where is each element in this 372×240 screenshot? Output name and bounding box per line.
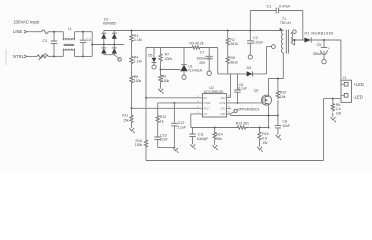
ground under R6: [331, 117, 336, 122]
svg-text:1.1M: 1.1M: [134, 60, 142, 64]
svg-text:GND: GND: [220, 113, 226, 116]
ground circle C7: [207, 71, 211, 75]
ground circle U1: [182, 75, 186, 79]
wire pin5 GND: [230, 114, 278, 116]
svg-text:C8: C8: [282, 119, 286, 123]
wire bridge left column: [103, 31, 105, 55]
wire pin3 MULT: [132, 107, 197, 109]
wire pin1 VSENSE: [146, 97, 197, 99]
ground under R14: [212, 145, 217, 150]
T1 secondary dot circle: [293, 30, 297, 34]
svg-text:C3: C3: [43, 39, 47, 43]
wire: [27, 31, 42, 33]
svg-text:1000pF: 1000pF: [197, 137, 209, 141]
svg-text:15k: 15k: [216, 137, 222, 141]
svg-text:C1: C1: [267, 5, 272, 9]
diode D2c: [112, 32, 117, 34]
ground under C11: [190, 144, 195, 149]
svg-text:L1: L1: [68, 27, 72, 31]
svg-text:TLV431A: TLV431A: [188, 69, 203, 73]
wire bridge right column: [113, 31, 115, 55]
svg-text:1W: 1W: [336, 111, 342, 115]
wire VDD riser to pin8: [227, 74, 231, 98]
svg-text:200k: 200k: [165, 57, 173, 61]
ground under R15: [257, 147, 262, 152]
wire AC feed vertical: [92, 32, 124, 57]
svg-text:R7: R7: [165, 52, 169, 56]
wire ZCD column: [145, 48, 147, 98]
svg-text:2.2uF: 2.2uF: [177, 126, 186, 130]
svg-text:SPP04N60C3: SPP04N60C3: [237, 108, 259, 112]
scan artifact left edge: [5, 49, 7, 65]
svg-text:D5: D5: [148, 54, 152, 58]
T1 primary dot: [280, 28, 282, 30]
svg-text:100k: 100k: [134, 79, 142, 83]
node junction: [53, 31, 55, 33]
T1 core: [286, 30, 288, 54]
svg-text:381k: 381k: [230, 42, 238, 46]
svg-text:-LED: -LED: [353, 95, 363, 100]
svg-text:C11: C11: [198, 132, 204, 136]
ground circle C5: [322, 59, 326, 63]
svg-text:J1: J1: [343, 76, 347, 80]
svg-text:10uF: 10uF: [282, 124, 290, 128]
svg-text:20V: 20V: [199, 61, 206, 65]
ground under C8: [276, 135, 281, 140]
svg-text:C5: C5: [317, 43, 321, 47]
node junctions: [103, 44, 105, 46]
wire to J1: [341, 40, 344, 84]
ground bridge: [118, 58, 122, 62]
svg-text:D1 MURB1660: D1 MURB1660: [305, 32, 334, 36]
svg-text:C7: C7: [200, 50, 204, 54]
fuse F1: [42, 30, 48, 33]
svg-text:EN: EN: [204, 97, 208, 100]
svg-text:MULT: MULT: [204, 108, 211, 111]
ground under R9: [158, 89, 163, 94]
svg-text:D3: D3: [247, 66, 251, 70]
wire pin4 CS: [191, 114, 269, 128]
svg-text:1k: 1k: [160, 120, 164, 124]
svg-text:100k: 100k: [162, 79, 170, 83]
ground at pin5: [234, 109, 237, 112]
svg-text:15k: 15k: [123, 119, 129, 123]
svg-text:R3 40.2k: R3 40.2k: [190, 42, 204, 46]
svg-text:230VAC Input: 230VAC Input: [14, 19, 41, 24]
ground circle C2: [248, 55, 252, 59]
U2 pin stubs right: [227, 103, 232, 114]
wire Q1 source down: [268, 105, 270, 127]
wire secondary bottom: [291, 40, 295, 45]
wire: [131, 43, 133, 56]
svg-text:R10: R10: [280, 91, 286, 95]
wire pin7 GATE: [231, 102, 263, 104]
svg-text:COMP: COMP: [204, 102, 212, 105]
svg-text:0.47uF: 0.47uF: [279, 5, 291, 9]
aux winding tap circle: [272, 45, 276, 49]
svg-text:Q1: Q1: [254, 88, 259, 92]
svg-text:CS: CS: [204, 113, 208, 116]
ground circle D5: [152, 65, 156, 69]
U2 pin stubs left: [197, 98, 203, 114]
wire: [48, 31, 63, 33]
svg-text:1W: 1W: [262, 141, 268, 145]
svg-text:LINE: LINE: [13, 29, 23, 34]
svg-text:100k: 100k: [135, 143, 143, 147]
svg-text:381k: 381k: [230, 60, 238, 64]
wire: [131, 84, 133, 108]
T1 secondary winding: [291, 33, 293, 42]
ground under R11: [129, 128, 134, 133]
diode D2a: [101, 32, 106, 34]
wire pin2 COMP: [158, 102, 197, 104]
svg-text:VDD: VDD: [220, 97, 225, 100]
wire: [27, 55, 38, 57]
diode D2b: [101, 47, 106, 49]
thermistor RT1: [37, 55, 48, 58]
svg-text:C4: C4: [87, 38, 91, 42]
svg-text:R11: R11: [122, 114, 128, 118]
svg-text:ZCD: ZCD: [220, 108, 225, 111]
ground C10 C12: [174, 146, 176, 148]
diode D2d: [112, 47, 117, 49]
wire bottom ground rail: [146, 160, 324, 162]
svg-text:0.22uF: 0.22uF: [253, 40, 264, 44]
svg-text:750 uH: 750 uH: [280, 21, 292, 25]
wire -LED return: [324, 95, 345, 160]
wire bridge bottom: [104, 55, 118, 58]
wire primary bottom to drain: [269, 53, 284, 95]
svg-text:1.1M: 1.1M: [134, 38, 142, 42]
wire bias rail: [146, 48, 267, 74]
svg-text:+LED: +LED: [353, 82, 364, 87]
svg-text:15k: 15k: [280, 95, 286, 99]
T1 primary winding: [281, 30, 283, 53]
svg-text:KBP865: KBP865: [103, 21, 116, 25]
wire top DC rail: [104, 30, 284, 32]
svg-text:R13 301: R13 301: [236, 121, 249, 125]
svg-text:NTRL: NTRL: [13, 54, 25, 59]
svg-text:+: +: [328, 46, 330, 50]
wire: [227, 46, 229, 56]
wire: [48, 55, 63, 57]
svg-text:GATE: GATE: [219, 102, 226, 105]
svg-text:22uF: 22uF: [160, 138, 168, 142]
wire: [131, 65, 133, 76]
